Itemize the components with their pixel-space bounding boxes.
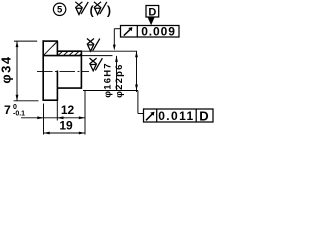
finish symbol on boss top surface xyxy=(87,39,100,52)
svg-text:-0.1: -0.1 xyxy=(13,111,25,118)
svg-text:0.009: 0.009 xyxy=(141,24,176,38)
item number circled 5 xyxy=(53,3,65,15)
bore top line xyxy=(43,55,83,57)
extension of boss top line to phi22 dimension xyxy=(82,50,137,52)
phi34 dimension line xyxy=(16,41,18,101)
datum filled triangle xyxy=(148,17,155,25)
circular runout symbol in 0.011 frame xyxy=(146,112,154,120)
svg-text:φ16H7: φ16H7 xyxy=(103,62,114,98)
svg-text:(: ( xyxy=(90,4,94,18)
arrow right onto 43.5 xyxy=(37,116,43,119)
phi22p6 top arrow xyxy=(135,51,138,57)
phi22p6 bottom arrow xyxy=(135,85,138,91)
svg-text:): ) xyxy=(107,4,111,18)
extension line flange right face xyxy=(56,101,58,121)
svg-text:12: 12 xyxy=(61,103,75,117)
dimension line 19 xyxy=(44,132,86,134)
flange top edge xyxy=(43,40,59,42)
flange bottom edge xyxy=(43,99,59,101)
arrow right onto 85 xyxy=(79,116,85,119)
svg-text:0.011: 0.011 xyxy=(158,109,194,123)
phi34 top extension line xyxy=(14,40,37,42)
boss end face xyxy=(80,51,82,89)
arrow left onto 57.3 xyxy=(57,116,63,119)
svg-text:19: 19 xyxy=(59,118,73,132)
header finish symbol 1 xyxy=(75,2,88,15)
header finish symbol 2 xyxy=(94,2,107,15)
boss top line xyxy=(57,50,82,52)
feature control frame 0.011 with datum D xyxy=(144,109,214,122)
phi22p6 dimension line with 0.011 leader xyxy=(137,51,144,113)
leader from 0.009 frame to phi22 surface extension xyxy=(114,29,120,91)
bottom extension line of boss diameter xyxy=(83,90,138,92)
svg-text:D: D xyxy=(148,7,156,19)
flange block right edge xyxy=(56,41,58,56)
phi16H7 top arrow up onto bore line xyxy=(115,56,118,62)
svg-text:7: 7 xyxy=(4,103,11,117)
extension line left flange bottom corner xyxy=(43,104,45,135)
centerline xyxy=(37,70,89,72)
phi34 bottom extension line xyxy=(14,100,39,102)
extension of bore line to phi16 dimension xyxy=(82,55,113,57)
svg-text:5: 5 xyxy=(57,5,63,16)
finish symbol under bore line xyxy=(90,58,103,71)
circular runout symbol in 0.009 frame xyxy=(124,28,132,36)
svg-text:D: D xyxy=(199,108,208,123)
datum feature symbol D box xyxy=(146,6,159,18)
feature control frame 0.009 xyxy=(121,26,180,38)
part outline: flange left edge xyxy=(43,40,83,101)
flange right face lower xyxy=(56,71,58,101)
svg-text:φ22p6: φ22p6 xyxy=(114,63,125,97)
leader arrow down onto boss-top line xyxy=(113,45,116,51)
phi34 arrows xyxy=(16,41,19,47)
dimension line 7 / 12 xyxy=(21,117,85,119)
hatching of boss wall strip xyxy=(58,52,82,56)
svg-text:φ34: φ34 xyxy=(0,55,14,83)
extension line boss end xyxy=(84,91,86,135)
boss bottom edge xyxy=(57,87,82,89)
hatching of flange section block xyxy=(44,42,57,55)
